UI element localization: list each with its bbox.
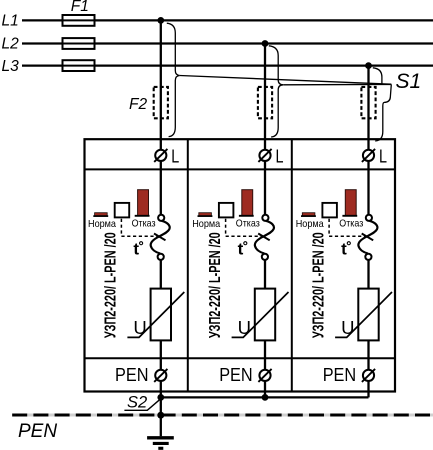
S2 switch stroke (124, 399, 160, 410)
thermal contact S-curve module 2 (255, 221, 274, 254)
varistor diagonal module 3 (335, 292, 392, 337)
fuse F2 dashed module 1 (154, 87, 168, 118)
enclosure box outline (85, 139, 396, 391)
wire varistor to PEN terminal module 1 (160, 340, 162, 369)
junction tap L2 (262, 40, 269, 47)
svg-text:F1: F1 (71, 0, 89, 15)
svg-text:PEN: PEN (219, 365, 253, 385)
svg-text:PEN: PEN (18, 421, 57, 442)
wire varistor to PEN terminal module 3 (367, 340, 369, 369)
terminal L circle module 2 (259, 150, 270, 161)
svg-text:Отказ: Отказ (339, 218, 363, 230)
fuse F1 on L2 (63, 38, 95, 49)
fuse F2 dashed module 2 (258, 87, 272, 118)
svg-text:PEN: PEN (323, 365, 357, 385)
indicator fail bar module 3 (345, 190, 356, 216)
terminal PEN circle module 1 (155, 370, 166, 381)
wire PEN bus (161, 396, 369, 398)
leader line S1 from brace 1 (180, 76, 391, 85)
PEN conductor dashed line (12, 414, 433, 417)
svg-text:t: t (238, 240, 244, 259)
indicator fail bar module 1 (138, 190, 149, 216)
wire L2 line (22, 42, 433, 44)
thermal contact top circle module 1 (158, 215, 164, 221)
wire PEN terminal to bus module 3 (367, 381, 369, 397)
terminal PEN circle module 3 (363, 370, 374, 381)
junction bus module 2 (262, 394, 269, 401)
dashed link horizontal module 3 (329, 235, 365, 237)
divider under L terminals (85, 168, 396, 170)
varistor diagonal module 1 (127, 292, 184, 337)
svg-text:УЗП2-220/ L-PEN /20: УЗП2-220/ L-PEN /20 (103, 232, 120, 338)
module divider 1 (187, 139, 189, 391)
svg-text:УЗП2-220/ L-PEN /20: УЗП2-220/ L-PEN /20 (207, 232, 224, 338)
fuse F1 on L1 (63, 15, 95, 26)
thermal contact bottom circle module 1 (158, 254, 164, 260)
leader line S1 from brace 2 (283, 83, 391, 85)
svg-text:Отказ: Отказ (132, 218, 156, 230)
wire drop L3 into module 3 (367, 66, 369, 150)
terminal L circle module 1 (155, 150, 166, 161)
indicator window square module 2 (219, 203, 234, 218)
module divider 2 (291, 139, 293, 391)
svg-text:Норма: Норма (88, 218, 116, 230)
svg-text:L: L (171, 146, 179, 166)
svg-text:L: L (379, 146, 387, 166)
svg-text:УЗП2-220/ L-PEN /20: УЗП2-220/ L-PEN /20 (310, 232, 327, 338)
junction bus module 1 (157, 394, 164, 401)
svg-text:U: U (238, 317, 251, 338)
thermal contact bottom circle module 3 (365, 254, 371, 260)
fuse F1 on L3 (63, 60, 95, 71)
varistor diagonal module 2 (232, 292, 289, 337)
terminal PEN circle module 2 (259, 370, 270, 381)
svg-text:S1: S1 (396, 70, 422, 93)
svg-text:t: t (341, 240, 347, 259)
svg-text:L1: L1 (2, 13, 19, 30)
thermal contact cross tick module 2 (258, 234, 270, 241)
brace module 2 (269, 46, 283, 137)
wire contact to varistor module 3 (367, 260, 369, 289)
wire contact to varistor module 2 (264, 260, 266, 289)
svg-text:L2: L2 (2, 36, 20, 53)
dashed link horizontal module 1 (121, 235, 157, 237)
indicator fail bar module 2 (242, 190, 253, 216)
wire bus to earth (160, 397, 162, 436)
dashed link vertical module 1 (120, 219, 122, 236)
ground symbol (147, 436, 174, 439)
wire L-terminal to contact module 3 (367, 161, 369, 215)
wire L-terminal to contact module 1 (160, 161, 162, 215)
indicator window square module 3 (322, 203, 337, 218)
dashed link vertical module 2 (225, 219, 227, 236)
wire drop L1 into module 1 (160, 20, 162, 149)
varistor U body module 1 (151, 289, 171, 341)
wire PEN terminal to bus module 1 (160, 381, 162, 397)
varistor U body module 2 (255, 289, 275, 341)
terminal L circle module 3 (363, 150, 374, 161)
svg-text:PEN: PEN (115, 365, 149, 385)
svg-text:U: U (133, 317, 146, 338)
wire PEN terminal to bus module 2 (264, 381, 266, 397)
svg-text:Отказ: Отказ (236, 218, 260, 230)
junction PEN conductor (157, 412, 164, 419)
svg-text:F2: F2 (129, 96, 147, 113)
varistor U body module 3 (358, 289, 378, 341)
brace module 3 (373, 68, 392, 141)
wire L3 line (22, 64, 433, 66)
divider above PEN terminals (85, 357, 396, 359)
dashed link horizontal module 2 (226, 235, 262, 237)
svg-text:S2: S2 (127, 394, 147, 412)
thermal contact top circle module 2 (262, 215, 268, 221)
indicator window square module 1 (115, 203, 130, 218)
svg-text:Норма: Норма (296, 218, 324, 230)
junction tap L3 (365, 62, 372, 69)
fuse F2 dashed module 3 (361, 87, 375, 118)
svg-text:L: L (276, 146, 284, 166)
thermal contact S-curve module 3 (358, 221, 377, 254)
svg-text:t: t (133, 240, 139, 259)
svg-text:L3: L3 (2, 58, 20, 75)
thermal contact cross tick module 3 (362, 234, 374, 241)
junction tap L1 (157, 17, 164, 24)
indicator small bar module 3 (302, 213, 315, 216)
thermal contact S-curve module 1 (151, 221, 170, 254)
wire L1 line (22, 19, 433, 21)
dashed link vertical module 3 (328, 219, 330, 236)
brace module 1 (167, 23, 180, 136)
svg-text:U: U (341, 317, 354, 338)
thermal contact cross tick module 1 (154, 234, 166, 241)
svg-text:Норма: Норма (192, 218, 220, 230)
indicator small bar module 2 (199, 213, 212, 216)
wire contact to varistor module 1 (160, 260, 162, 289)
indicator small bar module 1 (95, 213, 108, 216)
wire drop L2 into module 2 (264, 44, 266, 150)
thermal contact top circle module 3 (366, 215, 372, 221)
thermal contact bottom circle module 2 (262, 254, 268, 260)
wire L-terminal to contact module 2 (264, 161, 266, 215)
wire varistor to PEN terminal module 2 (264, 340, 266, 369)
